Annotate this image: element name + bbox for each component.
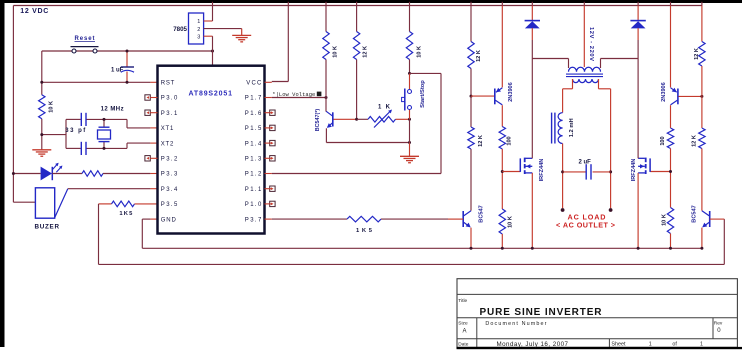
svg-text:10 K: 10 K (49, 101, 55, 113)
svg-text:BC547: BC547 (692, 205, 698, 222)
svg-text:12 K: 12 K (691, 135, 697, 147)
svg-text:P1.1: P1.1 (245, 187, 262, 193)
svg-text:Size: Size (458, 320, 468, 326)
svg-text:A: A (462, 329, 466, 335)
svg-text:RST: RST (161, 81, 175, 87)
svg-text:10 K: 10 K (332, 46, 338, 58)
svg-text:100: 100 (660, 136, 666, 145)
svg-text:GND: GND (161, 217, 177, 223)
svg-text:P1.2: P1.2 (245, 172, 262, 178)
svg-text:1 uF: 1 uF (111, 68, 124, 74)
svg-text:P3.7: P3.7 (245, 217, 262, 223)
svg-text:XT2: XT2 (161, 141, 174, 147)
svg-text:1.2 mH: 1.2 mH (569, 118, 575, 137)
svg-text:10 K: 10 K (508, 216, 514, 228)
svg-text:1: 1 (649, 341, 652, 347)
svg-text:12 K: 12 K (476, 50, 482, 62)
svg-text:3: 3 (197, 34, 200, 40)
svg-text:*|Low Voltage: *|Low Voltage (272, 92, 315, 98)
svg-text:1 K: 1 K (378, 104, 391, 110)
svg-text:1K5: 1K5 (356, 228, 373, 234)
svg-text:P1.3: P1.3 (245, 157, 262, 163)
svg-text:BC547(*): BC547(*) (315, 109, 321, 132)
svg-text:2: 2 (197, 27, 200, 33)
svg-text:IRFZ44N: IRFZ44N (631, 159, 637, 182)
svg-text:P3.4: P3.4 (161, 187, 178, 193)
svg-text:P1.6: P1.6 (245, 111, 262, 117)
svg-text:Title: Title (458, 298, 467, 304)
svg-text:10 K: 10 K (662, 214, 668, 226)
svg-text:1: 1 (197, 19, 200, 25)
svg-text:PURE SINE INVERTER: PURE SINE INVERTER (480, 307, 603, 318)
svg-text:< AC OUTLET >: < AC OUTLET > (556, 221, 615, 230)
svg-text:Monday, July 16, 2007: Monday, July 16, 2007 (497, 341, 569, 348)
svg-text:2 uF: 2 uF (579, 160, 592, 166)
svg-text:2N3906: 2N3906 (508, 82, 514, 102)
svg-text:P1.4: P1.4 (245, 141, 262, 147)
svg-text:Document Number: Document Number (485, 321, 546, 327)
svg-text:P1.0: P1.0 (245, 202, 262, 208)
svg-text:12 MHz: 12 MHz (101, 106, 124, 112)
svg-text:of: of (672, 341, 677, 347)
svg-text:BUZER: BUZER (35, 223, 60, 230)
svg-text:1K5: 1K5 (119, 211, 133, 217)
svg-text:33 pf: 33 pf (65, 128, 86, 134)
svg-text:1: 1 (700, 341, 703, 347)
svg-text:BC547: BC547 (478, 205, 484, 222)
svg-text:12 VDC: 12 VDC (20, 8, 48, 15)
svg-text:Rev: Rev (714, 320, 723, 326)
svg-text:Sheet: Sheet (611, 341, 626, 347)
svg-text:P3.2: P3.2 (161, 157, 178, 163)
svg-text:12 K: 12 K (362, 46, 368, 58)
svg-text:IRFZ44N: IRFZ44N (539, 159, 545, 182)
svg-text:P1.5: P1.5 (245, 126, 262, 132)
svg-text:AT89S2051: AT89S2051 (189, 91, 233, 98)
svg-text:XT1: XT1 (161, 126, 174, 132)
svg-text:VCC: VCC (246, 81, 262, 87)
svg-text:P3.1: P3.1 (161, 111, 178, 117)
svg-text:P3.3: P3.3 (161, 172, 178, 178)
svg-text:2N3906: 2N3906 (661, 82, 667, 102)
svg-text:10 K: 10 K (416, 46, 422, 58)
svg-text:12 K: 12 K (694, 48, 700, 60)
svg-text:7805: 7805 (173, 26, 187, 33)
svg-text:12 K: 12 K (478, 135, 484, 147)
svg-text:P3.5: P3.5 (161, 202, 178, 208)
svg-text:100: 100 (507, 136, 513, 145)
svg-text:12V - 220V: 12V - 220V (588, 27, 594, 61)
svg-text:Start/Stop: Start/Stop (420, 80, 426, 108)
svg-text:Date: Date (458, 341, 468, 347)
svg-text:P3.0: P3.0 (161, 96, 178, 102)
svg-text:P1.7: P1.7 (245, 96, 262, 102)
